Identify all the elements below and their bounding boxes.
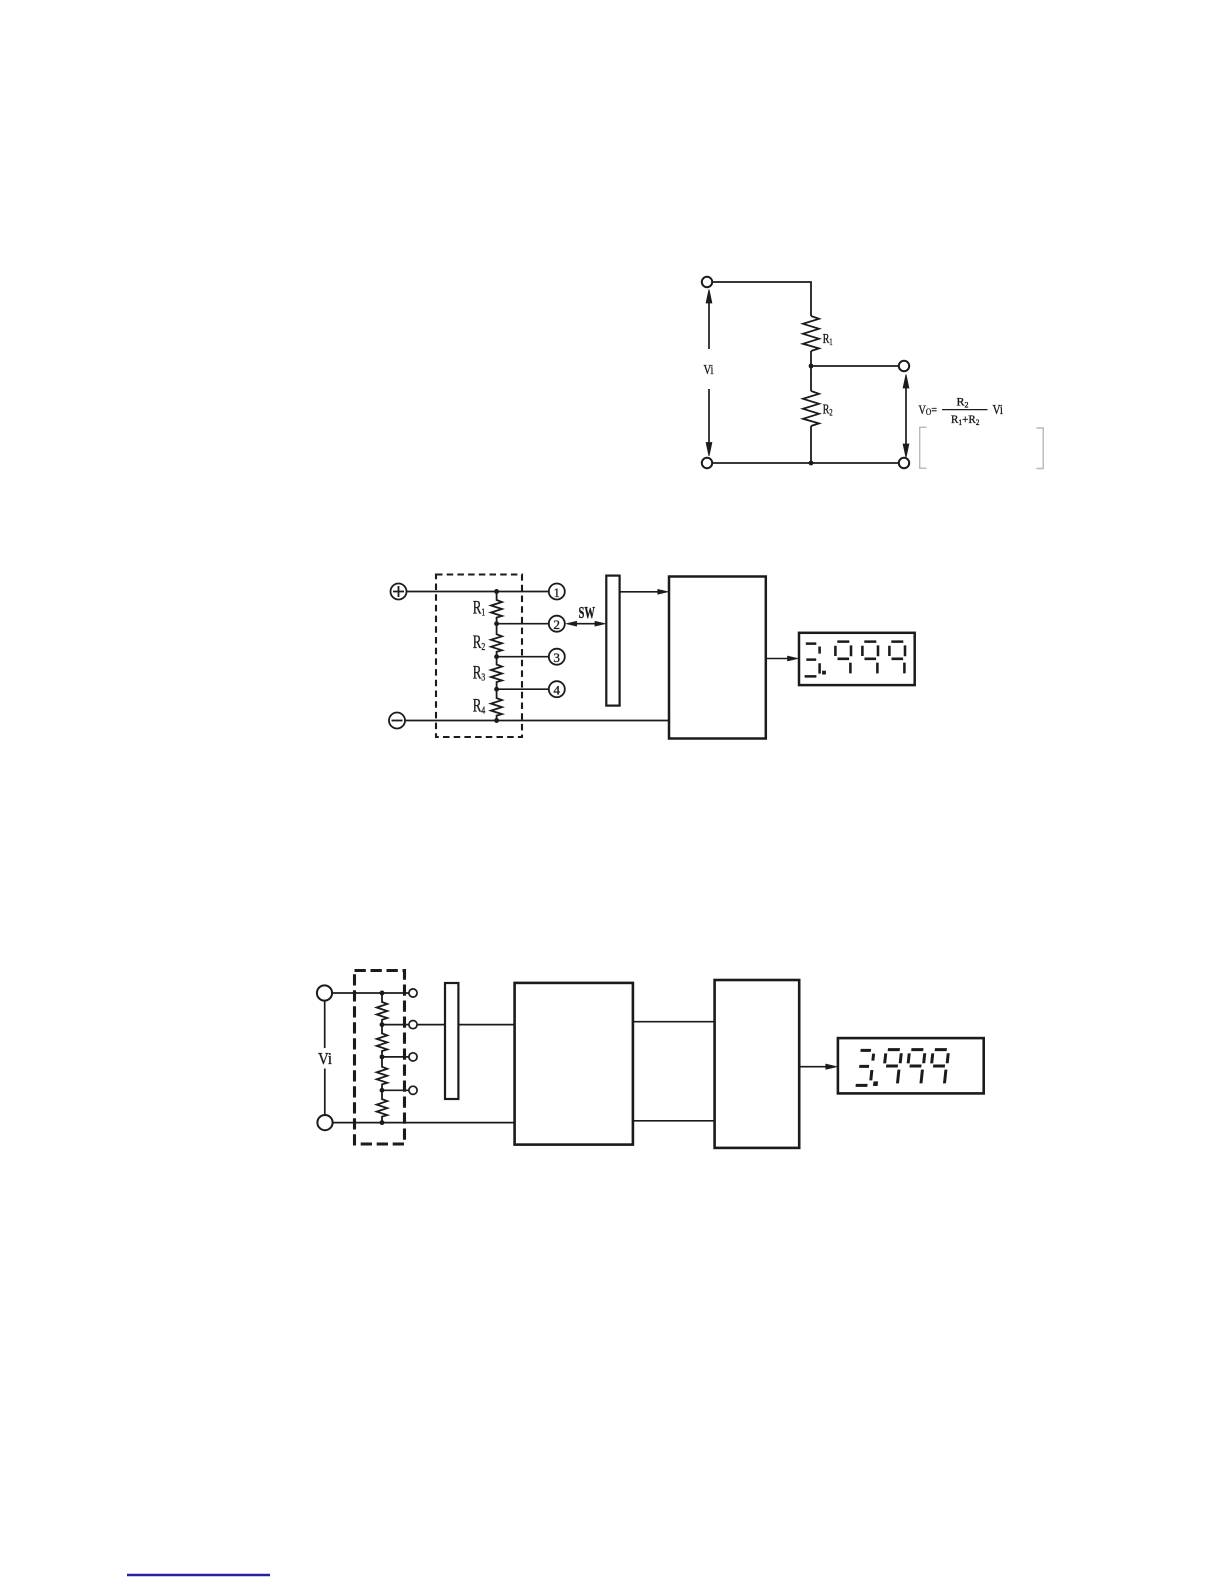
tap circle 1 — [409, 989, 417, 997]
wire tap2 circle to switch and block1 — [417, 1024, 514, 1026]
wire block1 to block2 lower — [633, 1120, 715, 1122]
wire bottom — [712, 462, 899, 464]
node circle 2 — [549, 616, 565, 632]
switch bar SW — [606, 576, 619, 706]
dashed divider box (bold) — [355, 971, 405, 1145]
wire node4 to circle4 — [497, 688, 549, 690]
junction bottom of chain — [494, 718, 499, 723]
wire node to mid-right terminal — [811, 365, 899, 367]
junction bottom — [809, 461, 814, 466]
terminal bottom-left — [702, 458, 712, 468]
resistor R2 — [491, 624, 502, 657]
resistor (top) — [377, 993, 388, 1025]
terminal top-left — [317, 985, 332, 1000]
resistor R4 — [491, 689, 502, 720]
resistor (bottom) — [377, 1090, 388, 1122]
wire R1 to node — [810, 351, 812, 366]
Vi arrow (left, double-headed) — [706, 290, 712, 457]
junction tap 2 — [380, 1022, 385, 1027]
junction tap 3 — [380, 1054, 385, 1059]
resistor (third) — [377, 1057, 388, 1090]
resistor R1 — [803, 316, 819, 351]
svg-text:R1+R2: R1+R2 — [951, 412, 980, 427]
wire block to display (arrow) — [766, 656, 799, 661]
svg-text:1: 1 — [554, 585, 560, 600]
wire Vi vertical upper — [324, 1001, 326, 1048]
switch bar — [445, 983, 458, 1099]
block 1 (A/D converter) — [515, 983, 633, 1145]
svg-text:R2: R2 — [823, 403, 833, 418]
wire plus to node1 — [407, 591, 549, 593]
wire node3 to circle3 — [497, 656, 549, 658]
junction tap 4 — [380, 1088, 385, 1093]
footnote rule (blue) — [127, 1574, 270, 1576]
node circle 1 — [549, 584, 565, 600]
display panel — [838, 1038, 984, 1093]
terminal mid-right — [899, 361, 909, 371]
dashed divider box — [436, 575, 522, 738]
bracket left (answer blank) — [920, 427, 927, 468]
resistor R3 — [491, 657, 502, 690]
tap circle 3 — [409, 1053, 417, 1061]
SW double arrow wire — [566, 621, 606, 626]
node circle 4 — [549, 681, 565, 697]
wire block2 to display (arrow) — [799, 1064, 837, 1070]
svg-text:SW: SW — [579, 603, 596, 622]
wire bottom terminal to block1 — [333, 1122, 515, 1124]
wire Vi vertical lower — [324, 1069, 326, 1115]
wire R2 to bottom — [810, 426, 812, 463]
svg-text:4: 4 — [553, 683, 560, 698]
Vo arrow (right, double-headed) — [903, 375, 909, 458]
resistor (second) — [377, 1025, 388, 1057]
svg-text:Vi: Vi — [704, 362, 714, 377]
display digits 3.999 — [856, 1050, 949, 1086]
wire tap2 to circle — [382, 1024, 409, 1026]
node circle 3 — [549, 649, 565, 665]
svg-text:R4: R4 — [473, 697, 486, 717]
node 2 junction — [494, 621, 499, 626]
terminal bottom-right — [899, 458, 909, 468]
svg-text:VO=: VO= — [919, 402, 938, 418]
resistor R1 — [491, 592, 502, 624]
bracket right (answer blank) — [1037, 428, 1044, 469]
wire switch to block (arrow) — [620, 589, 669, 594]
svg-text:R2: R2 — [957, 395, 969, 410]
svg-text:3: 3 — [553, 650, 560, 665]
wire minus to block — [405, 720, 669, 722]
wire node2 to circle2 — [497, 623, 549, 625]
svg-text:R2: R2 — [473, 633, 485, 653]
node 3 junction — [494, 654, 499, 659]
wire tap4 to circle — [382, 1089, 409, 1091]
node 4 junction — [494, 687, 499, 692]
block 2 (driver) — [715, 980, 800, 1148]
tap circle 2 — [409, 1021, 417, 1029]
wire tap3 to circle — [382, 1056, 409, 1058]
wire top — [712, 282, 811, 316]
junction top of chain — [380, 991, 385, 996]
tap circle 4 — [409, 1086, 417, 1094]
terminal bottom-left — [317, 1115, 332, 1130]
svg-text:R1: R1 — [473, 599, 485, 619]
junction bottom of chain — [380, 1120, 385, 1125]
wire top terminal to tap circle 1 — [332, 992, 409, 994]
svg-text:R3: R3 — [473, 664, 486, 684]
minus terminal — [389, 713, 405, 729]
resistor R2 — [803, 391, 819, 426]
junction top of chain — [494, 589, 499, 594]
display digits 3.999 — [805, 642, 905, 677]
svg-text:2: 2 — [553, 617, 560, 632]
node junction — [809, 364, 814, 369]
svg-text:Vi: Vi — [318, 1049, 332, 1068]
plus terminal — [391, 584, 407, 600]
svg-text:Vi: Vi — [993, 402, 1004, 417]
terminal top-left — [702, 277, 712, 287]
wire block1 to block2 upper — [633, 1021, 715, 1023]
display panel — [799, 633, 915, 685]
svg-text:R1: R1 — [823, 332, 833, 347]
converter block — [669, 577, 766, 739]
formula Vo = R2/(R1+R2) Vi — [919, 395, 1004, 428]
wire node down to R2 — [810, 366, 812, 391]
